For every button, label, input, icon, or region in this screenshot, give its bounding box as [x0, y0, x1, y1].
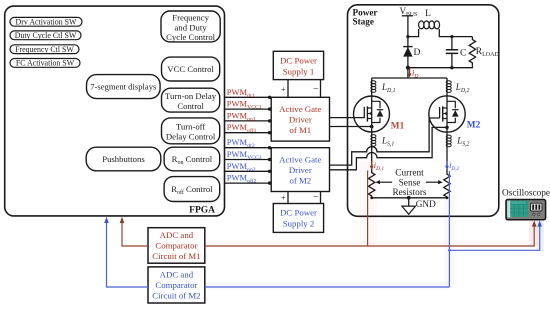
- wire branch to oscilloscope ch2 (blue): [449, 226, 539, 250]
- node junction R1 bottom: [370, 196, 373, 199]
- inductor LD2: [446, 78, 451, 96]
- svg-text:Stage: Stage: [353, 16, 374, 26]
- svg-text:Duty Cycle Ctl SW: Duty Cycle Ctl SW: [15, 31, 77, 40]
- resistor sense R2: [444, 172, 450, 198]
- Frequency and Duty Cycle Control box: [161, 11, 220, 42]
- wire PWM VCC2: [225, 149, 272, 161]
- artifact lavender band near scope (blue wire glow): [205, 200, 544, 289]
- wire ADC M1 to oscilloscope (brown): [205, 226, 534, 246]
- wire L left connection: [408, 29, 419, 37]
- arrow into oscilloscope ch2 (blue): [537, 220, 542, 226]
- inductor LS1: [371, 135, 376, 147]
- 7-segment displays box: [87, 75, 161, 99]
- svg-text:Comparator: Comparator: [155, 241, 197, 251]
- wire sense M2 tap (blue): [448, 171, 450, 287]
- svg-text:FPGA: FPGA: [189, 206, 215, 216]
- svg-text:Control: Control: [177, 101, 204, 111]
- svg-text:VCC Control: VCC Control: [167, 64, 214, 74]
- current sense resistors label: [392, 169, 426, 199]
- svg-text:GND: GND: [416, 199, 436, 209]
- current iD arrow: [408, 68, 412, 77]
- svg-text:and Duty: and Duty: [175, 23, 208, 33]
- wire gate M1 from driver: [330, 117, 365, 119]
- node junction iD: [406, 66, 410, 70]
- wire drain bus: [372, 77, 447, 79]
- svg-text:M2: M2: [467, 120, 481, 130]
- svg-text:Cycle Control: Cycle Control: [166, 32, 216, 42]
- arrow into FPGA from ADC M2 (blue): [104, 217, 109, 223]
- wire PWM VCC1: [225, 99, 272, 111]
- svg-text:of M2: of M2: [289, 175, 311, 185]
- svg-text:Pushbuttons: Pushbuttons: [102, 154, 145, 164]
- Ron Control box: [164, 147, 220, 171]
- Active Gate Driver of M1 box: [271, 97, 329, 141]
- svg-text:Turn-on Delay: Turn-on Delay: [165, 91, 217, 101]
- wire ground bus: [372, 197, 447, 199]
- supply1 - terminal wire: [320, 80, 322, 98]
- node junction kelvin M2: [445, 126, 449, 130]
- svg-text:Oscilloscope: Oscilloscope: [502, 188, 550, 198]
- current iD2 arrow: [445, 161, 449, 170]
- ground: [402, 198, 416, 215]
- resistor sense R1: [369, 170, 375, 198]
- svg-text:ADC and: ADC and: [160, 270, 194, 280]
- svg-text:C: C: [460, 48, 466, 58]
- wire PWM dr1: [225, 87, 272, 99]
- wire gate M2 from driver (with hop): [330, 118, 440, 165]
- FPGA box: [5, 6, 225, 216]
- switch FC Activation SW: [10, 59, 80, 68]
- oscilloscope icon: [506, 200, 546, 220]
- ADC and Comparator Circuit of M2 box: [148, 267, 205, 303]
- supply1 + terminal wire: [287, 80, 289, 98]
- svg-text:FC Activation SW: FC Activation SW: [16, 59, 75, 68]
- Turn-off Delay Control box: [162, 118, 220, 144]
- node junction blue tee: [448, 249, 451, 252]
- svg-text:Delay Control: Delay Control: [166, 132, 216, 142]
- arrow into FPGA from ADC M1 (brown): [120, 217, 125, 223]
- svg-text:+: +: [281, 84, 286, 94]
- svg-text:Supply 2: Supply 2: [283, 219, 315, 229]
- svg-text:Comparator: Comparator: [155, 280, 197, 290]
- wire sense M1 tap (brown): [367, 171, 369, 247]
- svg-text:of M1: of M1: [289, 125, 311, 135]
- current iD1 arrow: [370, 161, 374, 170]
- wire L right to RLOAD: [439, 29, 472, 37]
- svg-text:DC Power: DC Power: [280, 55, 317, 65]
- svg-text:Driver: Driver: [289, 115, 312, 125]
- svg-text:Active Gate: Active Gate: [279, 154, 321, 164]
- Turn-on Delay Control box: [162, 88, 220, 112]
- switch Duty Cycle Ctl SW: [10, 31, 81, 40]
- wire kelvin source M2 from driver (with hop): [330, 127, 448, 169]
- inductor L: [419, 21, 440, 29]
- svg-text:Resistors: Resistors: [392, 188, 426, 198]
- svg-text:Sense: Sense: [399, 178, 421, 188]
- resistor RLOAD: [469, 37, 475, 66]
- wire bottom bus of output filter: [408, 66, 473, 68]
- Roff Control box: [164, 177, 220, 202]
- svg-text:−: −: [313, 192, 319, 203]
- transistor M1: [354, 96, 390, 170]
- transistor M2: [429, 96, 465, 172]
- wire PWM off1: [225, 122, 272, 134]
- svg-text:Frequency: Frequency: [172, 13, 209, 23]
- wire iD down to drain bus: [407, 68, 409, 78]
- DC Power Supply 2 box: [273, 204, 323, 233]
- svg-text:Circuit of M2: Circuit of M2: [152, 291, 200, 301]
- svg-text:L: L: [425, 9, 431, 19]
- wire ADC M2 horizontal (blue): [205, 286, 450, 288]
- svg-text:Circuit of M1: Circuit of M1: [152, 251, 200, 261]
- DC Power Supply 1 box: [273, 51, 323, 79]
- artifact pink band near scope (brown wire glow): [205, 162, 538, 248]
- svg-text:Drv Activation SW: Drv Activation SW: [16, 17, 77, 26]
- svg-text:DC Power: DC Power: [280, 208, 317, 218]
- capacitor C tap wire: [451, 37, 453, 68]
- pointer arrow to R2: [426, 180, 443, 184]
- wire PWM off2: [225, 173, 272, 185]
- svg-text:Current: Current: [395, 169, 424, 179]
- Power Stage box: [348, 5, 499, 217]
- wire kelvin source M1 from driver: [330, 126, 372, 128]
- supply2 - terminal wire: [320, 192, 322, 204]
- svg-text:7-segment displays: 7-segment displays: [90, 82, 157, 92]
- wire ADC M2 to FPGA (blue): [107, 223, 149, 287]
- ADC and Comparator Circuit of M1 box: [148, 228, 205, 264]
- VBUS terminal tick: [402, 15, 413, 17]
- pointer arrow to R1: [375, 180, 392, 184]
- svg-text:ADC and: ADC and: [160, 230, 194, 240]
- node junction C bottom: [450, 66, 453, 69]
- svg-text:Frequency Ctl SW: Frequency Ctl SW: [15, 45, 74, 54]
- svg-text:Supply 1: Supply 1: [283, 66, 315, 76]
- wire VBUS down: [407, 16, 409, 68]
- node junction kelvin M1: [370, 125, 374, 129]
- svg-text:D: D: [414, 48, 421, 58]
- supply2 + terminal wire: [287, 192, 289, 204]
- svg-text:Turn-off: Turn-off: [176, 122, 206, 132]
- arrow into oscilloscope ch1 (brown): [532, 220, 537, 226]
- inductor LS2: [446, 135, 451, 147]
- wire PWM on2: [225, 161, 272, 173]
- svg-text:M1: M1: [391, 121, 405, 131]
- node junction L/VBUS: [406, 35, 409, 38]
- Active Gate Driver of M2 box: [271, 148, 329, 192]
- wire PWM on1: [225, 110, 272, 122]
- switch Drv Activation SW: [10, 17, 82, 26]
- inductor LD1: [371, 78, 376, 96]
- wire PWM dr2: [225, 137, 272, 149]
- capacitor C plates: [446, 50, 458, 54]
- node junction R2 bottom: [446, 196, 449, 199]
- wire ADC M1 to FPGA (brown): [122, 223, 148, 246]
- Pushbuttons box: [86, 147, 161, 171]
- diode D: [403, 47, 412, 57]
- svg-text:Active Gate: Active Gate: [279, 104, 321, 114]
- node junction C top: [450, 35, 453, 38]
- svg-text:−: −: [313, 83, 319, 94]
- VCC Control box: [162, 57, 220, 81]
- switch Frequency Ctl SW: [10, 45, 79, 54]
- svg-text:+: +: [281, 192, 286, 202]
- node junction GND tap: [407, 196, 411, 200]
- svg-text:Driver: Driver: [289, 165, 312, 175]
